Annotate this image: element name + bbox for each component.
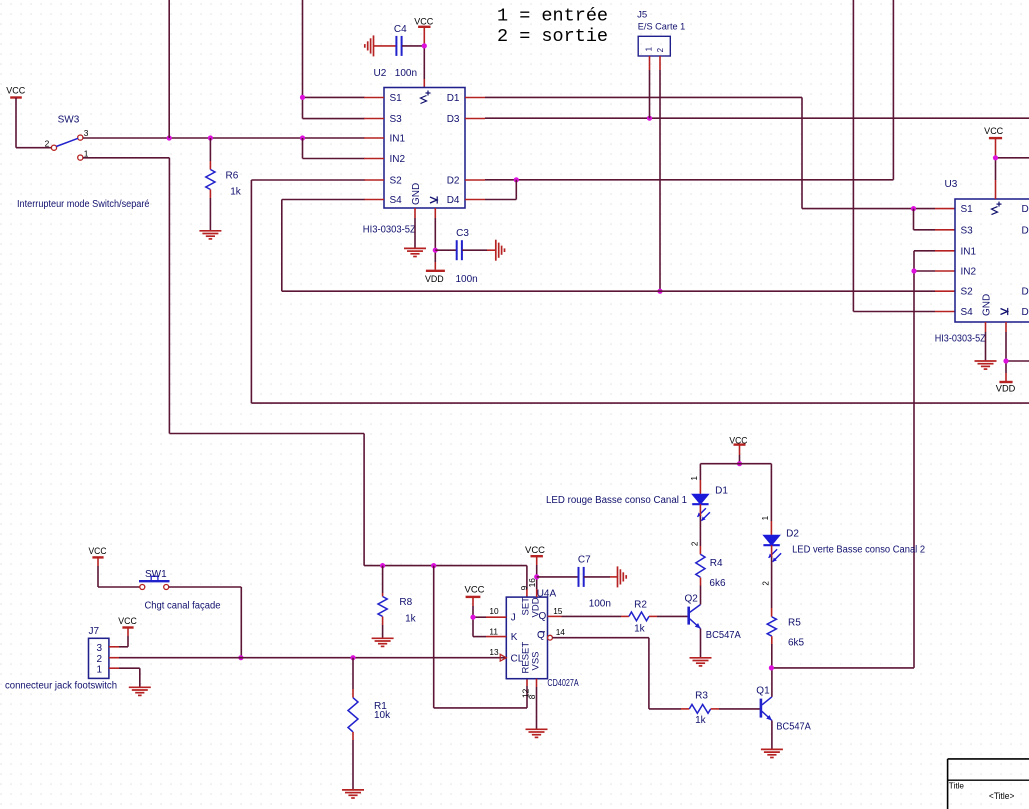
svg-text:13: 13 [489, 647, 499, 657]
svg-text:U3: U3 [945, 179, 958, 190]
wire vertical V1 from top edge [168, 0, 170, 138]
svg-text:S2: S2 [961, 287, 974, 298]
svg-text:S4: S4 [390, 195, 403, 206]
svg-text:1: 1 [690, 476, 699, 481]
svg-text:<Title>: <Title> [989, 791, 1015, 801]
U2 V- pin glyph [430, 196, 437, 203]
svg-text:connecteur jack footswitch: connecteur jack footswitch [5, 681, 117, 692]
svg-text:R2: R2 [634, 600, 647, 611]
ground left of C4 [365, 35, 374, 56]
wire net D3 (to right edge) [485, 117, 1029, 119]
resistor R5 [767, 617, 804, 649]
wire SW1 to main net [169, 587, 242, 658]
ground below R8 [372, 638, 394, 646]
svg-text:Interrupteur mode Switch/separ: Interrupteur mode Switch/separé [17, 199, 150, 210]
wire R1 top lead [352, 658, 354, 698]
resistor R8 [378, 597, 417, 625]
wire VCC stem U2 [423, 27, 425, 88]
svg-text:100n: 100n [456, 274, 478, 285]
wire R6 top lead [209, 138, 211, 170]
junction dot V1-IN1 [167, 135, 172, 140]
resistor R4 [696, 554, 726, 589]
wire C7 right lead [584, 576, 618, 578]
wire VCC stem LED rail [739, 445, 741, 463]
ground below Q1 [761, 749, 783, 757]
label U3 [945, 179, 958, 190]
power VCC (U3) [984, 126, 1004, 138]
label U4A [537, 588, 557, 599]
svg-text:D1: D1 [447, 93, 460, 104]
junction dot R1 top [350, 655, 355, 660]
wire R5 bottom [771, 636, 773, 668]
junction dot R6-IN1 [208, 135, 213, 140]
svg-text:D3: D3 [447, 114, 460, 125]
wire U3 S1-S3 tie [914, 209, 956, 230]
svg-text:S4: S4 [961, 307, 974, 318]
svg-text:GND: GND [982, 294, 993, 316]
svg-text:J: J [511, 613, 516, 624]
svg-text:R8: R8 [399, 597, 412, 608]
svg-text:K: K [511, 632, 518, 643]
svg-text:10: 10 [489, 606, 499, 616]
LED D1 [692, 486, 728, 521]
U2 pin names right [447, 93, 460, 206]
power VCC (LED rail) [729, 435, 748, 445]
connector J5 box [637, 10, 685, 56]
junction dot U3 S1 [911, 206, 916, 211]
svg-text:1: 1 [761, 515, 770, 520]
junction dot U3 VDD node [1003, 358, 1008, 363]
ground below Q2 [690, 658, 712, 666]
svg-text:VCC: VCC [414, 16, 434, 26]
svg-text:6k6: 6k6 [709, 578, 726, 589]
svg-text:1: 1 [84, 148, 89, 158]
wire VCC pin16 [536, 556, 538, 597]
wire R8 bottom lead [382, 617, 384, 638]
svg-text:3: 3 [97, 643, 103, 654]
svg-text:S3: S3 [961, 225, 974, 236]
junction dot C3 node [433, 248, 438, 253]
svg-text:Q2: Q2 [685, 593, 699, 604]
wire vertical B from top edge [892, 0, 894, 180]
ground below R1 [342, 790, 364, 798]
wire C4 right lead [402, 45, 424, 47]
connector J7 box [89, 626, 109, 678]
wire D2-D4 tie [485, 180, 516, 200]
svg-text:Q1: Q1 [756, 686, 770, 697]
svg-text:HI3-0303-5Z: HI3-0303-5Z [935, 334, 986, 345]
resistor R1 [348, 698, 391, 732]
wire D1 to R4 [699, 504, 701, 554]
wire R2 to Q2 base [649, 615, 688, 617]
ground below R6 [199, 231, 221, 239]
svg-text:VCC: VCC [6, 86, 26, 96]
wire Q2 emitter [700, 629, 702, 658]
wire VCC to SW1 [98, 557, 140, 587]
svg-text:2 = sortie: 2 = sortie [497, 26, 608, 47]
svg-text:LED verte Basse conso Canal 2: LED verte Basse conso Canal 2 [792, 545, 925, 556]
svg-text:IN2: IN2 [390, 154, 406, 165]
switch SW3 [45, 114, 89, 160]
resistor R6 [206, 170, 242, 198]
power VCC (U2) [414, 16, 434, 27]
wire J7 pin1 to ground [109, 668, 140, 687]
svg-text:C7: C7 [578, 554, 591, 565]
U4A clock triangle [500, 654, 506, 661]
svg-text:1k: 1k [695, 715, 707, 726]
U3 pin names right [1022, 204, 1029, 318]
wire net S4-U2 to U3 S2 [282, 200, 955, 292]
wire R3 to Q1 base [711, 708, 760, 710]
wire Q1 emitter [771, 721, 773, 749]
svg-text:100n: 100n [395, 68, 417, 79]
wire J5 pin1 [649, 56, 651, 118]
svg-text:BC547A: BC547A [706, 630, 741, 641]
ground below U2 [404, 248, 426, 256]
svg-text:C4: C4 [394, 24, 407, 35]
svg-text:VCC: VCC [118, 616, 137, 626]
title block [948, 759, 1029, 809]
U3 GND rotated label [982, 294, 993, 316]
wire U4A pin8 [536, 679, 538, 729]
label Chgt canal facade [145, 600, 221, 611]
label LED rouge [546, 495, 687, 506]
svg-text:J7: J7 [89, 626, 100, 637]
wire IN2 tie U2 [303, 138, 365, 159]
svg-text:S3: S3 [390, 114, 403, 125]
wire SET pin path [526, 566, 528, 598]
U2 pin names left [390, 93, 406, 206]
U4A pin numbers [489, 578, 565, 699]
svg-text:D2: D2 [786, 529, 799, 540]
svg-text:VCC: VCC [984, 126, 1004, 136]
wire VCC to J and K [473, 597, 506, 637]
label HI3-0303-5Z (U3) [935, 334, 986, 345]
svg-text:VCC: VCC [89, 546, 108, 556]
power VDD (U3) [996, 382, 1016, 394]
label U2 [374, 68, 387, 79]
IC U2 HI3-0303-5Z box [384, 88, 465, 209]
svg-text:D2: D2 [447, 176, 460, 187]
svg-text:GND: GND [411, 183, 422, 205]
resistor R2 [629, 600, 649, 635]
junction dot U3 IN2 [911, 268, 916, 273]
wire Qbar pin14 to R3 [552, 638, 689, 709]
svg-text:IN2: IN2 [961, 267, 977, 278]
wire vertical A from top edge to U3 S4 [853, 0, 955, 312]
U2 left pin stubs [364, 98, 384, 200]
wire Q2 collector [700, 577, 702, 604]
wire J7 pin2 main line [109, 657, 506, 659]
svg-text:R5: R5 [788, 617, 801, 628]
junction dot J5 pin1 [647, 116, 652, 121]
svg-text:SW1: SW1 [145, 569, 167, 580]
resistor R3 [689, 691, 710, 726]
svg-text:S1: S1 [961, 204, 974, 215]
wire U3 GND pin [985, 322, 987, 360]
wire Q pin15 to R2 [548, 615, 629, 617]
svg-text:1: 1 [644, 46, 653, 51]
transistor Q1 BC547A [756, 686, 811, 733]
svg-text:Title: Title [949, 781, 964, 791]
junction dot IN2 tie [300, 135, 305, 140]
svg-text:R4: R4 [710, 558, 723, 569]
svg-text:U2: U2 [374, 68, 387, 79]
wire R6 bottom lead [209, 190, 211, 231]
svg-text:VSS: VSS [531, 651, 542, 670]
note 2 = sortie [497, 26, 608, 47]
svg-text:D4: D4 [1022, 307, 1029, 318]
U4A Qbar bubble [548, 635, 553, 640]
wire SW3 pin3 to U2 IN1 (net IN1) [83, 137, 365, 139]
svg-text:D1: D1 [1022, 204, 1029, 215]
capacitor C7 [578, 554, 611, 609]
svg-text:D1: D1 [715, 486, 728, 497]
grid dots background [0, 0, 1, 1]
wire R8 top lead [382, 566, 384, 597]
wire LED top rail [700, 464, 771, 536]
junction dot C4-VCC [422, 43, 427, 48]
wire RESET path [434, 566, 527, 708]
svg-text:HI3-0303-5Z: HI3-0303-5Z [363, 225, 416, 236]
U4A labels [511, 597, 547, 674]
ground below U4A [526, 729, 548, 737]
power VCC (SW1) [89, 546, 108, 558]
svg-text:6k5: 6k5 [788, 637, 805, 648]
junction dot U3 VCC [993, 155, 998, 160]
wire U2 GND pin [414, 208, 416, 248]
svg-text:VCC: VCC [525, 545, 546, 555]
svg-text:D2: D2 [1022, 287, 1029, 298]
wire J5 pin2 [659, 56, 661, 291]
svg-text:D4: D4 [447, 195, 460, 206]
wire vertical V2 from top edge to U2 S3 [303, 0, 365, 119]
svg-text:Chgt canal façade: Chgt canal façade [145, 600, 221, 611]
junction dot V2-S1 [300, 95, 305, 100]
label HI3-0303-5Z (U2) [363, 225, 416, 236]
wire C4 left lead [374, 45, 397, 47]
ground right of C7 [618, 566, 627, 587]
wire net D2 [485, 179, 893, 181]
wire C7 left lead [537, 576, 579, 578]
junction dot Q1 collector node [769, 665, 774, 670]
ground right of C3 [496, 240, 505, 261]
wire VCC to SW3 pin2 [16, 98, 51, 148]
label LED verte [792, 545, 925, 556]
svg-text:LED rouge Basse conso Canal 1: LED rouge Basse conso Canal 1 [546, 495, 687, 506]
svg-text:2: 2 [656, 47, 665, 52]
wire U3 V- pin [1006, 322, 1029, 381]
junction dot J pin [470, 615, 475, 620]
capacitor C4 [394, 24, 417, 79]
wire Q1 collector [771, 668, 773, 697]
svg-text:15: 15 [553, 606, 563, 616]
U3 pin names left [961, 204, 977, 318]
U3 V- pin glyph [1001, 308, 1008, 315]
wire VCC stem U3 [996, 138, 1029, 199]
junction dot J5 pin2 net [657, 289, 662, 294]
wire U2 S1 branch [303, 96, 365, 98]
ground below U3 [975, 361, 997, 369]
power VCC (top-left) [6, 86, 26, 98]
junction dot R8 top [380, 563, 385, 568]
transistor Q2 BC547A [685, 593, 742, 641]
label connecteur jack footswitch [5, 681, 117, 692]
svg-text:1: 1 [97, 664, 103, 675]
junction dot D2-D4 tie [514, 177, 519, 182]
ground below J7 pin1 [129, 687, 151, 695]
svg-text:S2: S2 [390, 176, 403, 187]
svg-text:VCC: VCC [465, 585, 486, 595]
svg-text:D3: D3 [1022, 225, 1029, 236]
svg-text:J5: J5 [637, 10, 647, 21]
power VCC (U4A pin16) [525, 545, 546, 556]
LED D1 pin numbers [690, 476, 699, 547]
wire U2 V- pin to VDD [434, 208, 436, 270]
svg-text:1 = entrée: 1 = entrée [497, 6, 608, 27]
svg-text:2: 2 [97, 654, 103, 665]
svg-text:IN1: IN1 [961, 246, 977, 257]
wire SW3 pin1 to lower net [83, 158, 527, 566]
svg-text:BC547A: BC547A [776, 722, 811, 733]
junction dot LED rail [737, 461, 742, 466]
svg-text:100n: 100n [589, 599, 611, 610]
switch SW1 [139, 569, 170, 589]
svg-text:C3: C3 [456, 228, 469, 239]
label CD4027A [547, 678, 579, 689]
svg-text:14: 14 [556, 627, 566, 637]
wire C3 left lead [435, 249, 456, 251]
svg-text:SW3: SW3 [58, 114, 80, 125]
svg-text:VDD: VDD [425, 274, 444, 284]
junction dot SW1 drop [238, 655, 243, 660]
capacitor C3 [456, 228, 478, 285]
junction dot pin16 node [534, 574, 539, 579]
svg-text:VCC: VCC [729, 435, 748, 445]
U3 V+ pin glyph [992, 202, 1002, 215]
wire net S2-U2 to right edge [251, 180, 1029, 403]
wire net D1 to U3 S1 [485, 97, 955, 208]
wire C3 right lead [462, 249, 495, 251]
svg-text:Q: Q [539, 611, 547, 622]
svg-text:11: 11 [489, 627, 498, 637]
U2 V+ pin glyph [421, 91, 431, 104]
wire R1 bottom lead [352, 732, 354, 790]
svg-text:E/S Carte 1: E/S Carte 1 [638, 21, 686, 31]
svg-text:VDD: VDD [996, 384, 1016, 394]
power VDD (U2) [425, 271, 445, 284]
svg-text:3: 3 [84, 128, 89, 138]
U2 right pin stubs [465, 98, 485, 200]
note 1 = entree [497, 6, 608, 27]
svg-text:R6: R6 [226, 171, 239, 182]
svg-text:R3: R3 [695, 691, 708, 702]
junction dot RESET branch [431, 563, 436, 568]
svg-text:1k: 1k [405, 614, 417, 625]
svg-text:IN1: IN1 [390, 134, 406, 145]
wire D2 to R5 [771, 545, 773, 617]
svg-text:2: 2 [45, 138, 50, 148]
IC U4A CD4027A box [506, 597, 547, 679]
svg-text:1k: 1k [230, 186, 242, 197]
svg-text:S1: S1 [390, 93, 403, 104]
wire U3 IN1-IN2 net [771, 251, 955, 668]
svg-text:CD4027A: CD4027A [547, 678, 579, 689]
svg-text:2: 2 [761, 581, 770, 586]
U2 GND rotated label [411, 183, 422, 205]
svg-text:1k: 1k [634, 624, 646, 635]
label Interrupteur mode Switch/separe [17, 199, 150, 210]
power VCC (U4A JK) [465, 585, 486, 597]
LED D2 [763, 529, 799, 562]
wire J7 pin3 to VCC [109, 628, 128, 647]
power VCC (J7) [118, 616, 137, 628]
svg-text:10k: 10k [374, 710, 391, 721]
IC U3 HI3-0303-5Z box [955, 199, 1029, 322]
LED D2 pin numbers [761, 515, 771, 585]
svg-text:U4A: U4A [537, 588, 557, 599]
svg-text:2: 2 [690, 541, 699, 546]
